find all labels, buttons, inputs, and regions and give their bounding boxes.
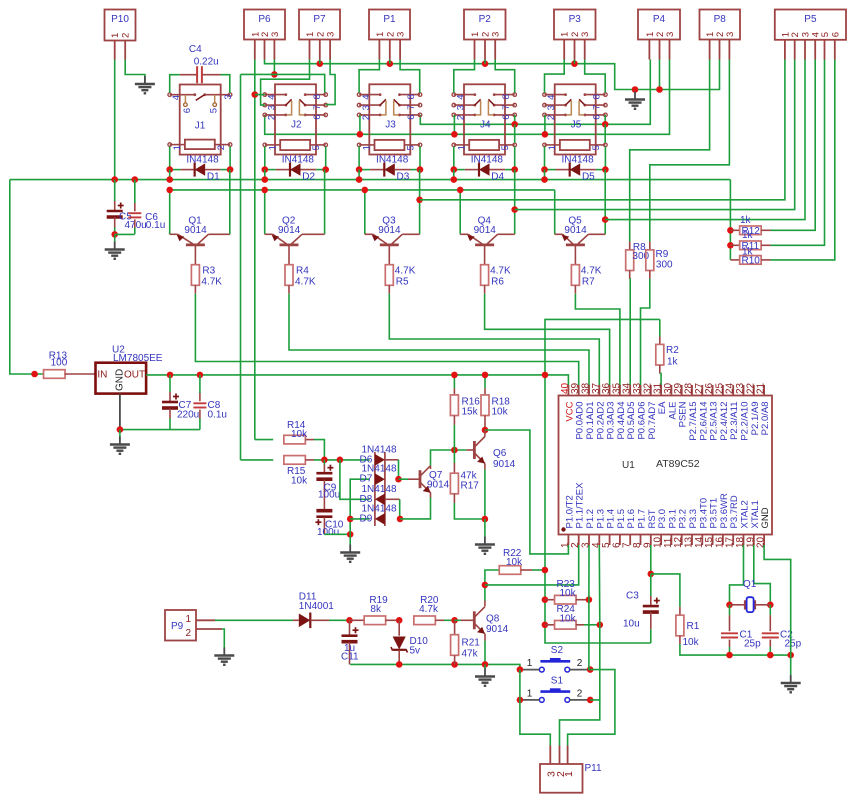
resistor R18 10k <box>484 375 486 389</box>
svg-text:AT89C52: AT89C52 <box>656 458 700 470</box>
wire R23 right to U1 pin3 <box>588 545 590 600</box>
svg-text:4: 4 <box>546 95 557 100</box>
junction R21 bottom <box>451 661 458 668</box>
diode D11 1N4001 <box>215 619 293 621</box>
svg-text:R17: R17 <box>461 481 480 492</box>
svg-text:3: 3 <box>326 32 337 37</box>
J1 pins 6 and 5 stubs <box>184 95 186 104</box>
svg-text:1: 1 <box>563 771 575 777</box>
wire J3 pin2 to rail <box>359 115 361 134</box>
svg-text:8: 8 <box>312 94 323 99</box>
switch S2 <box>540 660 570 663</box>
svg-text:2: 2 <box>267 115 278 120</box>
connector P8 <box>700 10 741 40</box>
svg-text:IN4148: IN4148 <box>186 155 219 166</box>
svg-text:P10: P10 <box>111 14 129 25</box>
svg-text:25p: 25p <box>744 639 761 650</box>
capacitor C9 100u <box>323 460 325 465</box>
capacitor C10 100u <box>316 509 332 513</box>
svg-text:8k: 8k <box>370 604 382 615</box>
svg-text:8: 8 <box>501 94 512 99</box>
svg-text:6: 6 <box>312 114 323 119</box>
wire D7/D9 branch <box>350 479 369 534</box>
svg-text:1: 1 <box>375 32 386 37</box>
svg-text:1: 1 <box>362 145 373 150</box>
U1 pin 38 P0.1AD1 <box>588 385 590 396</box>
wire J4 coil5 up to pin6 rail <box>514 124 516 143</box>
U1 pin 2 P1.1/T2EX <box>578 535 580 546</box>
junction <box>571 60 578 67</box>
svg-text:4.7K: 4.7K <box>295 277 316 288</box>
U1 pin 31 EA <box>660 385 662 396</box>
transistor Q7 9014 <box>399 478 409 480</box>
J1 switch arm <box>196 95 205 101</box>
svg-text:9014: 9014 <box>427 480 450 491</box>
svg-text:P7: P7 <box>313 14 326 25</box>
wire U1 pin20 GND <box>764 545 791 655</box>
relay J2 <box>275 84 316 154</box>
svg-text:0.1u: 0.1u <box>146 220 165 231</box>
resistor R23 10k <box>542 596 549 603</box>
diode D6 1N4148 <box>375 454 385 466</box>
svg-text:9014: 9014 <box>493 459 516 470</box>
U1 pin 1 P1.0/T2 <box>567 535 569 546</box>
wire P10.1 down <box>114 60 116 180</box>
relay J3 <box>369 84 410 154</box>
U1 pin 20 GND <box>763 535 765 546</box>
wire P7.1 to J2 pin3 <box>261 60 310 106</box>
svg-text:1: 1 <box>470 32 481 37</box>
svg-text:U1: U1 <box>622 460 635 471</box>
wire R17 bottom to Q6 emitter junction <box>454 503 485 519</box>
ground bottom right <box>790 655 792 675</box>
svg-text:3: 3 <box>725 32 736 37</box>
wire C4 to J1 contacts <box>180 74 197 76</box>
junction on bus A <box>453 170 455 180</box>
svg-text:1k: 1k <box>740 215 752 226</box>
5V bus from U2 OUT <box>146 375 568 394</box>
svg-text:3: 3 <box>580 32 591 37</box>
wire Q8 emitter to ground rail <box>484 634 486 641</box>
svg-text:20: 20 <box>756 536 767 548</box>
wire R14 right to D6 row <box>305 439 314 441</box>
junction P4 pin2 on ground line <box>659 60 661 90</box>
svg-text:IN4148: IN4148 <box>561 155 594 166</box>
U1 pin 40 VCC <box>567 385 569 396</box>
wire R6 to U1 <box>484 285 486 293</box>
svg-text:R21: R21 <box>462 638 481 649</box>
voltage regulator U2 LM7805EE <box>96 363 147 394</box>
junction <box>317 60 324 67</box>
junction ch5 to P5.3 line <box>602 216 609 223</box>
wire J5 pin6 to pin6 rail <box>604 115 606 124</box>
svg-text:4: 4 <box>456 95 467 100</box>
svg-text:10k: 10k <box>683 637 700 648</box>
transistor Q5 9014 <box>555 233 563 235</box>
svg-text:9014: 9014 <box>378 225 401 236</box>
svg-text:10k: 10k <box>492 407 509 418</box>
wire bus A y179.6 <box>10 179 731 181</box>
wire U1 pin9 RST down <box>650 545 652 574</box>
svg-text:4: 4 <box>171 95 182 100</box>
connector P2 <box>464 10 506 40</box>
svg-text:C4: C4 <box>189 44 202 55</box>
svg-text:D3: D3 <box>397 172 410 183</box>
wire coil pins down to diode D2 row <box>264 147 266 170</box>
svg-text:3: 3 <box>361 105 372 110</box>
switch S1 <box>540 690 570 693</box>
svg-text:4.7k: 4.7k <box>419 604 439 615</box>
svg-text:4: 4 <box>361 95 372 100</box>
ground Q8 emitter <box>484 664 486 669</box>
resistor R15 10k <box>241 459 274 461</box>
diode D1 IN4148 <box>170 169 181 171</box>
svg-text:R5: R5 <box>396 277 409 288</box>
wire Q2 base to resistor <box>288 245 290 265</box>
wire Q2 collector column <box>324 170 326 235</box>
svg-text:4: 4 <box>267 95 278 100</box>
svg-text:4.7K: 4.7K <box>581 266 602 277</box>
U1 pin 21 P2.0/A8 <box>763 385 765 396</box>
svg-text:IN4148: IN4148 <box>376 155 409 166</box>
svg-text:2: 2 <box>216 145 227 150</box>
wire coil pins down to diode D4 row <box>453 147 455 170</box>
svg-text:3: 3 <box>270 32 281 37</box>
wire R24 right to U1 pin4 <box>598 545 601 625</box>
U1 pin 29 PSEN <box>681 385 683 396</box>
capacitor C7 220u <box>167 372 174 379</box>
svg-text:P2: P2 <box>479 14 492 25</box>
diode D9 1N4148 <box>375 513 385 525</box>
wire P6.3 to J2 pin8 <box>273 60 275 75</box>
svg-text:D5: D5 <box>582 172 595 183</box>
U1 pin 27 P2.6/A14 <box>701 385 703 396</box>
svg-text:9014: 9014 <box>474 225 497 236</box>
resistor R17 47k <box>453 450 455 463</box>
wire 5V riser to lower circuits <box>545 375 651 643</box>
svg-text:LM7805EE: LM7805EE <box>113 353 163 364</box>
svg-text:J3: J3 <box>385 120 396 131</box>
connector P7 <box>299 10 340 40</box>
wire bus B to Q5 emitter <box>554 190 556 234</box>
wire J4 pin2 to rail <box>453 115 455 134</box>
svg-text:100u: 100u <box>318 490 340 501</box>
wire Q4 base to resistor <box>484 245 486 265</box>
wire P6.1 to J2 pin4 and R14 <box>254 60 256 440</box>
svg-text:4.7K: 4.7K <box>490 266 511 277</box>
svg-text:9014: 9014 <box>278 225 301 236</box>
wire D6 cathode to D7 row <box>385 459 399 461</box>
wire P5.2 line <box>515 60 795 210</box>
wire R11 to P5.5 <box>761 244 770 246</box>
svg-text:IN: IN <box>97 370 107 381</box>
wire S2 right to P11.1 <box>568 670 615 746</box>
diode rails <box>374 452 376 526</box>
wire P5.3 line <box>605 60 805 220</box>
svg-text:2: 2 <box>546 115 557 120</box>
wire bus B to Q4 emitter <box>459 190 461 234</box>
svg-text:J4: J4 <box>480 120 491 131</box>
svg-text:D9: D9 <box>360 513 373 524</box>
svg-text:6: 6 <box>501 114 512 119</box>
capacitor C5 470u electrolytic <box>114 180 116 201</box>
svg-text:IN4148: IN4148 <box>282 155 315 166</box>
U1 pin 24 P2.3/A11 <box>732 385 734 396</box>
resistor R8 300 <box>629 242 631 250</box>
svg-text:6: 6 <box>406 114 417 119</box>
wire D8 branch <box>340 460 370 500</box>
wire Q3 collector column <box>419 170 421 235</box>
wire P2.3 to J4 pin8 <box>495 60 515 93</box>
connector P11 <box>540 764 583 793</box>
resistor R1 10k <box>679 607 681 616</box>
connector P9 <box>165 610 196 641</box>
U1 pin 18 XTAL2 <box>743 535 745 546</box>
svg-text:R9: R9 <box>656 249 669 260</box>
svg-text:5: 5 <box>208 108 219 113</box>
svg-text:2: 2 <box>121 33 132 38</box>
wire R18 to U1 pin1 <box>485 430 568 554</box>
svg-text:J2: J2 <box>291 120 302 131</box>
svg-text:1: 1 <box>267 145 278 150</box>
capacitor C3 10u <box>650 574 652 596</box>
junction C6 on bus A <box>132 176 139 183</box>
svg-text:6: 6 <box>830 32 841 37</box>
svg-text:D4: D4 <box>491 172 504 183</box>
svg-text:1: 1 <box>527 658 533 669</box>
transistor Q2 9014 <box>265 233 273 235</box>
diode D4 IN4148 <box>454 169 465 171</box>
svg-text:3: 3 <box>491 32 502 37</box>
wire R15 right to D6 <box>305 459 314 461</box>
capacitor C11 1u <box>349 620 351 635</box>
wire P8.3 to R9 <box>650 60 730 242</box>
svg-text:R2: R2 <box>666 345 679 356</box>
U1 pin 15 P3.5T1 <box>712 535 714 546</box>
svg-text:21: 21 <box>756 382 767 394</box>
svg-text:1: 1 <box>547 145 558 150</box>
U1 pin 28 P2.7/A15 <box>691 385 693 396</box>
wire D9 row to Q7 emitter <box>400 497 431 519</box>
U1 pin 5 P1.4 <box>609 535 611 546</box>
wire coil pins down to diode D3 row <box>358 147 360 170</box>
capacitor C6 0.1u <box>134 180 136 203</box>
relay J5 coil <box>560 140 590 150</box>
svg-text:R6: R6 <box>491 277 504 288</box>
wire left rail <box>10 180 44 374</box>
svg-text:4.7K: 4.7K <box>201 277 222 288</box>
svg-text:5: 5 <box>406 145 417 150</box>
U1 pin 11 P3.1 <box>670 535 672 546</box>
wire Q5 base to resistor <box>574 245 576 265</box>
wire R4 to U1 <box>288 285 290 293</box>
junction <box>387 60 394 67</box>
diode D2 IN4148 <box>265 169 276 171</box>
svg-text:10k: 10k <box>560 614 577 625</box>
wire P1.3 to J3 pin8 <box>400 60 420 93</box>
svg-text:1: 1 <box>186 614 192 625</box>
U1 pin 35 P0.4AD4 <box>619 385 621 396</box>
svg-text:C3: C3 <box>626 591 639 602</box>
connector P4 <box>638 10 680 40</box>
J1 coil <box>185 140 215 150</box>
wire Q6 emitter down <box>484 464 486 470</box>
svg-text:10k: 10k <box>291 429 308 440</box>
svg-text:R3: R3 <box>202 266 215 277</box>
junctions on ground rail <box>726 652 733 659</box>
svg-text:4.7K: 4.7K <box>395 266 416 277</box>
svg-text:5: 5 <box>591 145 602 150</box>
transistor Q8 9014 <box>455 619 461 621</box>
wire bus A down to R10/R11/R12 <box>729 180 731 260</box>
svg-text:P6: P6 <box>258 14 271 25</box>
zener D10 5v <box>398 620 400 635</box>
wire R15 riser <box>240 74 242 460</box>
transistor Q4 9014 <box>460 233 468 235</box>
svg-text:D1: D1 <box>207 172 220 183</box>
svg-text:P1: P1 <box>383 14 396 25</box>
junction on bus A <box>169 170 171 180</box>
ground P10.2 <box>144 76 146 84</box>
wire J4 pin6 to pin6 rail <box>514 115 516 124</box>
svg-text:S2: S2 <box>551 645 564 656</box>
ground at relay bus <box>632 86 639 93</box>
svg-text:Q8: Q8 <box>486 614 500 625</box>
wire P5.1 line <box>420 60 785 200</box>
resistor R16 15k <box>453 375 455 389</box>
wire U1 pin19 XTAL1 to crystal <box>754 545 771 605</box>
connector P10 <box>105 10 136 41</box>
svg-text:D2: D2 <box>302 172 315 183</box>
U1 pin 37 P0.2AD2 <box>598 385 600 396</box>
resistor R21 47k <box>451 617 458 624</box>
svg-text:R7: R7 <box>582 277 595 288</box>
resistor R14 10k <box>255 439 273 441</box>
U1 pin 17 P3.7RD <box>732 535 734 546</box>
svg-text:9014: 9014 <box>486 624 509 635</box>
wire P1.1 to J3 pin4 <box>359 60 379 93</box>
svg-text:1: 1 <box>110 33 121 38</box>
wire bus B to Q2 emitter <box>264 190 266 234</box>
wire S left common down to P11.3 <box>519 670 521 700</box>
diode D8 1N4148 <box>375 494 385 506</box>
svg-text:P4: P4 <box>653 14 666 25</box>
svg-text:Q1: Q1 <box>743 579 757 590</box>
svg-text:1N4001: 1N4001 <box>299 601 334 612</box>
svg-text:47k: 47k <box>462 649 479 660</box>
svg-text:300: 300 <box>632 251 649 262</box>
U1 pin 25 P2.4/A12 <box>722 385 724 396</box>
resistor R4 4.7K <box>285 265 293 286</box>
svg-text:1: 1 <box>172 145 183 150</box>
svg-text:GND: GND <box>115 369 126 391</box>
wire Q1 collector column <box>229 170 231 235</box>
connector P5 <box>775 10 846 40</box>
U1 pin 22 P2.1/A9 <box>753 385 755 396</box>
svg-text:10u: 10u <box>623 619 640 630</box>
svg-text:7: 7 <box>406 105 417 110</box>
junction on bus A <box>264 170 266 180</box>
svg-text:220u: 220u <box>177 410 199 421</box>
junction on bus A <box>358 170 360 180</box>
junction D10 top <box>396 617 403 624</box>
svg-text:6: 6 <box>182 108 193 113</box>
resistor R9 300 <box>649 242 651 250</box>
svg-text:5: 5 <box>500 145 511 150</box>
relay J5 <box>555 84 596 154</box>
U1 pin 8 P1.7 <box>640 535 642 546</box>
svg-text:R10: R10 <box>742 256 761 267</box>
svg-text:IN4148: IN4148 <box>471 155 504 166</box>
ground Q6 emitter <box>484 519 486 537</box>
relay J4 coil <box>469 140 499 150</box>
connector P1 <box>369 10 410 40</box>
transistor Q6 9014 <box>467 449 475 451</box>
svg-text:15k: 15k <box>462 407 479 418</box>
wire bus P-pin2 common y64 <box>265 60 720 90</box>
svg-text:3: 3 <box>396 32 407 37</box>
svg-text:100u: 100u <box>317 527 339 538</box>
wire bus B y189.9 <box>170 189 555 191</box>
wire zener bottom rail <box>350 664 520 669</box>
svg-text:7: 7 <box>501 105 512 110</box>
U1 pin 33 P0.6AD6 <box>640 385 642 396</box>
wire Q3 base to resistor <box>388 245 390 265</box>
wire R24 junction down to S1 right <box>599 625 601 700</box>
wire Q5 collector column <box>604 170 606 235</box>
junction ch4 to P5.2 line <box>511 206 518 213</box>
wire pin6 rail y124.3 <box>420 60 650 125</box>
resistor R2 1k <box>545 319 660 375</box>
wire R5 to U1 <box>388 285 390 293</box>
wire pin2 rail y134.3 <box>265 60 670 135</box>
svg-text:P8: P8 <box>714 14 727 25</box>
svg-text:C11: C11 <box>341 652 359 663</box>
IC U1 AT89C52 <box>559 396 773 535</box>
wire P-pin2 drops to bus <box>319 60 321 64</box>
svg-text:300: 300 <box>656 260 673 271</box>
wire RST row to R1 <box>651 574 680 607</box>
svg-text:1: 1 <box>527 688 533 699</box>
wire coil pins down to diode D5 row <box>544 147 546 170</box>
wire R1 to ground rail <box>680 644 791 655</box>
svg-text:9014: 9014 <box>564 225 587 236</box>
diode D3 IN4148 <box>359 169 370 171</box>
junction ch3 to P5.1 line <box>416 197 423 204</box>
svg-text:R4: R4 <box>296 266 309 277</box>
wire R8 to U1 pin34 <box>629 271 631 279</box>
junction R18/Q6 collector <box>482 427 489 434</box>
ground C5/C6 <box>114 234 116 241</box>
wire Q7 collector to base row <box>431 450 467 466</box>
diode D5 IN4148 <box>545 169 556 171</box>
U1 pin 26 P2.5/A13 <box>712 385 714 396</box>
svg-text:3: 3 <box>267 105 278 110</box>
svg-text:J1: J1 <box>195 121 206 132</box>
svg-text:P3: P3 <box>569 14 582 25</box>
svg-text:1k: 1k <box>667 357 679 368</box>
svg-text:470u: 470u <box>125 220 147 231</box>
wire R2 to U1 pin31 <box>659 365 661 374</box>
wire C10 bottom to ground dot <box>324 533 350 535</box>
svg-text:2: 2 <box>186 628 192 639</box>
wire D8 cathode to D9 row <box>385 498 400 500</box>
svg-text:S1: S1 <box>551 675 564 686</box>
junction <box>482 60 489 67</box>
wire J5 pin2 to rail <box>544 115 546 134</box>
U1 pin 10 P3.0 <box>660 535 662 546</box>
transistor Q3 9014 <box>365 233 373 235</box>
